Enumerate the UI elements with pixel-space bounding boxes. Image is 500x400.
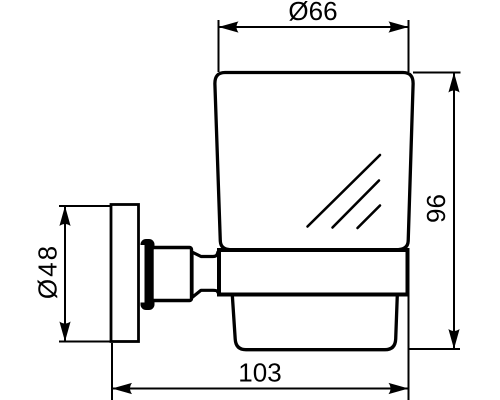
dim Ø66 dimension line xyxy=(219,26,409,28)
dim Ø48 bottom arrowhead xyxy=(59,322,70,342)
stem neck with flare into ring xyxy=(192,251,220,298)
dim 103 dimension line xyxy=(112,388,409,390)
glass shine line short xyxy=(358,206,381,229)
glass bottom below holder ring xyxy=(232,295,397,350)
holder ring band xyxy=(219,250,408,295)
glass tumbler outline (tapered cup, rounded rim corners) xyxy=(215,73,413,250)
svg-text:103: 103 xyxy=(238,358,281,388)
glass shine line medium xyxy=(333,181,380,228)
dim Ø48 bottom extension tick xyxy=(59,341,112,343)
stem barrel xyxy=(152,248,192,301)
dim 96 top arrowhead xyxy=(448,73,459,93)
wall plate (side view of round rosette, dia 48) xyxy=(111,205,139,342)
mount collar inner slit xyxy=(140,245,144,303)
glass shine line long xyxy=(308,155,381,227)
dim Ø48 top arrowhead xyxy=(59,206,70,226)
dim 103 right extension line xyxy=(408,297,410,400)
dim 103 left extension line xyxy=(111,343,113,400)
svg-text:96: 96 xyxy=(421,194,451,223)
dim 96 bottom arrowhead xyxy=(448,329,459,349)
dim Ø66 right arrowhead xyxy=(389,21,409,32)
dim Ø48 top extension tick xyxy=(59,205,112,207)
dim 103 left arrowhead xyxy=(112,383,132,394)
svg-text:Ø48: Ø48 xyxy=(33,244,63,299)
dim 96 top extension tick (rim extension) xyxy=(413,72,461,74)
dim Ø48 dimension line xyxy=(64,206,66,342)
dim Ø66 left arrowhead xyxy=(219,21,239,32)
svg-text:Ø66: Ø66 xyxy=(288,0,337,26)
dim Ø66 right extension line xyxy=(408,20,410,72)
dim 103 right arrowhead xyxy=(389,383,409,394)
dim 96 dimension line xyxy=(453,73,455,350)
mount collar against wall plate xyxy=(141,239,155,310)
dim 96 bottom extension tick xyxy=(409,348,461,350)
dim Ø66 left extension line xyxy=(218,20,220,72)
